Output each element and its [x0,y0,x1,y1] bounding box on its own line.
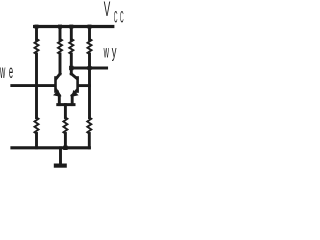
wire Q2 base to R4 column [79,84,90,87]
wire Q1 emitter lead [58,96,61,105]
resistor R3 [69,39,73,54]
wire R2 bottom to Q1 collector [59,54,62,74]
wire R6 bottom lead [64,134,67,148]
ground [56,148,65,166]
wire R1 bottom to R5 [35,54,38,118]
wire bottom rail [12,146,89,149]
node collector R2 junction [58,25,62,29]
wire emitter junction to R6 [64,105,67,118]
wire Vcc top rail [35,25,113,28]
svg-text:w: w [0,62,5,83]
wire Q2 emitter lead [71,96,74,105]
resistor R7 [87,118,91,134]
svg-text:y: y [112,42,117,62]
wire we input [12,84,55,87]
wire R5 bottom lead [35,134,38,148]
svg-text:V: V [104,0,111,21]
wire R4 bottom through wy node to R7 [88,54,91,118]
wire R1 top lead [35,27,38,40]
wire wy output [71,67,106,70]
wire R7 bottom lead [88,134,91,148]
resistor R6 [63,118,67,134]
wire R3 top lead [70,27,73,40]
transistor Q2 [71,74,78,97]
svg-text:C: C [120,9,124,27]
resistor R4 [88,39,92,54]
wire R2 top lead [59,27,62,40]
svg-text:w: w [103,42,109,62]
node collector R3 junction [69,25,73,29]
wire R3 bottom to Q2 collector [70,54,73,74]
label Vcc [104,0,124,27]
resistor R1 [35,39,39,54]
transistor Q1 [53,74,60,97]
wire emitter junction bar [58,103,74,106]
node wy crossing R4 column [88,66,92,70]
wire R4 top lead [88,27,91,40]
node R1 rail corner [35,25,39,29]
node R6 bottom rail junction [63,146,67,150]
node wy tap on R3 column [69,66,73,70]
resistor R5 [35,118,39,134]
label wy [103,42,116,62]
svg-text:e: e [9,62,13,83]
resistor R2 [58,39,62,54]
node R4 rail junction [88,25,92,29]
label we [0,62,13,83]
svg-text:C: C [114,9,118,27]
